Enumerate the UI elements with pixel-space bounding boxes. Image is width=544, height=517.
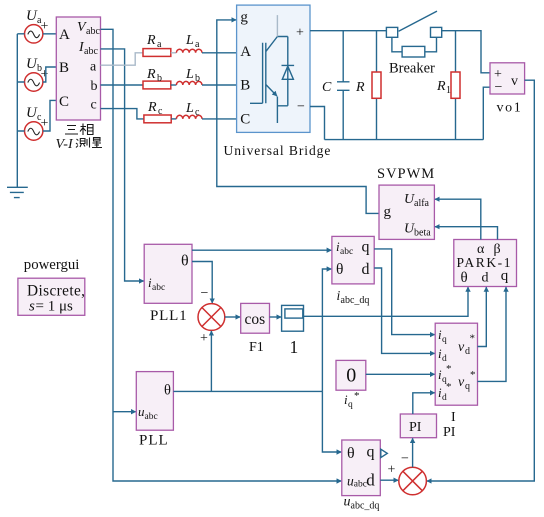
- wire b to Rb: [101, 84, 144, 86]
- wire PARK-1 alpha to Ualfa: [435, 199, 481, 239]
- svg-text:a: a: [90, 60, 97, 75]
- wire uabc_dq d to multiplier2: [380, 479, 398, 481]
- wire PI out to id*: [413, 393, 435, 414]
- wire multiplier1 to cos: [225, 316, 240, 318]
- PLL1 block: [144, 244, 192, 324]
- svg-text:Discrete,: Discrete,: [27, 283, 85, 300]
- wire Ub to block B: [43, 67, 56, 82]
- capacitor C: [322, 31, 350, 140]
- svg-text:*: *: [470, 369, 476, 381]
- svg-text:R: R: [355, 80, 365, 95]
- svg-text:R: R: [147, 100, 157, 115]
- svg-text:v: v: [458, 340, 465, 355]
- breaker: [386, 11, 441, 76]
- svg-text:q: q: [501, 268, 509, 284]
- svg-text:*: *: [446, 363, 452, 375]
- inductor Lb: [176, 67, 202, 85]
- wire rail to vo1 minus: [483, 87, 490, 139]
- svg-text:*: *: [446, 381, 452, 393]
- svg-text:q: q: [442, 335, 447, 345]
- svg-text:*: *: [470, 333, 476, 345]
- svg-text:c: c: [195, 107, 200, 118]
- PLL block: [136, 372, 173, 449]
- svg-text:−: −: [401, 452, 409, 467]
- svg-text:C: C: [240, 111, 250, 127]
- svg-text:q: q: [362, 239, 370, 256]
- cos block F1: [241, 303, 270, 355]
- current controller block I: [435, 323, 477, 425]
- svg-text:d: d: [442, 393, 447, 403]
- svg-text:g: g: [240, 10, 248, 26]
- wire Lb to bridge B: [202, 84, 237, 86]
- voltage measurement vo1: [490, 63, 525, 116]
- svg-text:c: c: [158, 106, 163, 117]
- AC source Uc: [25, 105, 49, 140]
- svg-text:R: R: [146, 33, 156, 48]
- SVPWM block: [377, 166, 435, 239]
- svg-text:+: +: [41, 116, 49, 131]
- ground: [7, 187, 28, 197]
- wire 0 to iq*: [366, 373, 435, 375]
- svg-text:θ: θ: [461, 270, 468, 286]
- svg-text:abc_dq: abc_dq: [351, 501, 380, 512]
- svg-text:L: L: [185, 33, 194, 48]
- svg-text:powergui: powergui: [24, 257, 80, 273]
- wire Rb-Lb: [171, 84, 177, 86]
- PI block: [400, 414, 455, 440]
- wire a (gray) to Ra: [101, 53, 144, 65]
- diode D1 icon: [282, 37, 295, 106]
- wire Ua to block A: [43, 33, 56, 35]
- svg-text:+: +: [41, 67, 49, 82]
- svg-text:+: +: [388, 463, 396, 478]
- inductor Lc: [176, 101, 202, 119]
- resistor Rc: [144, 100, 171, 123]
- wire Iabc to PLL1: [101, 49, 144, 281]
- svg-text:abc: abc: [340, 247, 353, 257]
- wire Rc-Lc: [171, 118, 176, 120]
- svg-text:+: +: [41, 19, 49, 34]
- svg-text:1: 1: [446, 85, 451, 96]
- iabc_dq transform block: [332, 236, 374, 306]
- svg-text:−: −: [201, 286, 209, 301]
- svg-text:beta: beta: [414, 228, 431, 239]
- svg-text:s: s: [29, 299, 35, 315]
- svg-text:B: B: [240, 77, 250, 93]
- svg-text:d: d: [482, 271, 489, 286]
- svg-text:d: d: [366, 471, 375, 490]
- svg-text:b: b: [91, 79, 98, 94]
- svg-text:L: L: [185, 101, 194, 116]
- svg-text:SVPWM: SVPWM: [377, 166, 435, 182]
- svg-text:B: B: [59, 60, 69, 76]
- resistor R: [355, 31, 381, 140]
- wire PLL theta up to iabc_dq theta: [322, 269, 331, 391]
- wire c to Rc: [101, 109, 144, 119]
- svg-text:A: A: [240, 44, 251, 60]
- wire g control (from SVPWM to bridge g): [217, 20, 379, 214]
- wire left bus: [17, 34, 24, 187]
- PARK-1 block: [454, 240, 517, 287]
- wire iabc_dq q out: [374, 249, 434, 335]
- svg-text:−: −: [297, 100, 305, 115]
- wire vq* to PARK-1 q: [478, 287, 507, 381]
- svg-text:d: d: [362, 261, 370, 278]
- svg-text:*: *: [354, 390, 360, 402]
- svg-text:c: c: [91, 98, 97, 113]
- svg-text:a: a: [195, 39, 200, 50]
- wire scope1 to PARK-1 theta: [304, 287, 469, 316]
- svg-text:q: q: [465, 381, 470, 392]
- svg-text:PLL: PLL: [139, 433, 169, 449]
- scope 1: [282, 305, 304, 357]
- svg-text:R: R: [146, 67, 156, 82]
- svg-text:+: +: [200, 331, 208, 346]
- svg-text:abc: abc: [145, 412, 158, 422]
- svg-text:alfa: alfa: [414, 198, 430, 209]
- svg-text:v: v: [511, 74, 518, 89]
- svg-text:abc_dq: abc_dq: [341, 295, 370, 306]
- svg-text:PI: PI: [443, 425, 456, 440]
- wire PLL theta net: [173, 390, 322, 392]
- wire Vabc down-left vertical: [101, 29, 342, 481]
- svg-text:A: A: [59, 27, 70, 43]
- svg-text:q: q: [367, 444, 375, 461]
- svg-text:a: a: [157, 39, 162, 50]
- inductor La: [176, 33, 202, 53]
- svg-text:1: 1: [290, 337, 299, 357]
- wire cos to scope1: [270, 316, 282, 318]
- wire La to bridge A: [202, 52, 237, 54]
- wire iabc_dq d out: [374, 268, 434, 353]
- multiplier product2: [399, 467, 427, 495]
- svg-text:+: +: [296, 26, 304, 41]
- AC source Ub: [25, 56, 49, 91]
- wire bridge minus to rail: [310, 107, 325, 140]
- resistor R1: [436, 31, 460, 140]
- svg-text:g: g: [384, 204, 392, 220]
- wire PLL theta up to multiplier1: [210, 331, 212, 391]
- svg-text:abc: abc: [86, 26, 100, 37]
- unconnected q port marker: [381, 449, 388, 457]
- svg-text:θ: θ: [347, 445, 355, 462]
- svg-text:V-I: V-I: [56, 137, 74, 152]
- wire Lc to bridge C: [202, 118, 237, 120]
- wire PLL1 theta to multiplier: [192, 262, 212, 304]
- svg-text:q: q: [348, 400, 353, 410]
- wire bottom dc rail: [325, 139, 484, 141]
- svg-text:PLL1: PLL1: [150, 308, 187, 324]
- svg-text:d: d: [465, 346, 470, 357]
- wire vd* to PARK-1 d: [478, 287, 487, 346]
- wire vo1 output feedback: [427, 80, 534, 481]
- resistor Rb: [143, 67, 171, 89]
- wire PLL theta down to uabc_dq theta: [322, 391, 341, 452]
- svg-text:u: u: [344, 495, 351, 510]
- svg-text:v: v: [458, 375, 465, 390]
- wire Uc to block C: [43, 100, 56, 131]
- svg-text:= 1 μs: = 1 μs: [36, 299, 74, 315]
- svg-text:b: b: [157, 73, 162, 84]
- svg-text:−: −: [495, 80, 503, 95]
- svg-text:Universal Bridge: Universal Bridge: [224, 143, 332, 158]
- wire multiplier2 to PI: [412, 438, 414, 467]
- svg-text:L: L: [185, 67, 194, 82]
- svg-text:C: C: [322, 80, 332, 95]
- svg-text:θ: θ: [164, 383, 171, 399]
- svg-text:abc: abc: [152, 283, 165, 293]
- svg-text:F1: F1: [249, 340, 264, 355]
- svg-text:abc: abc: [354, 480, 367, 490]
- AC source Ua: [25, 8, 49, 43]
- wire Vabc branch to PLL: [113, 411, 136, 413]
- resistor Ra: [143, 33, 171, 56]
- svg-text:Breaker: Breaker: [389, 61, 435, 77]
- svg-text:cos: cos: [245, 311, 266, 328]
- wire Ra-La (gray): [171, 52, 177, 54]
- svg-text:b: b: [195, 73, 200, 84]
- wire PARK-1 beta to Ubeta: [435, 227, 498, 240]
- svg-text:C: C: [59, 94, 69, 110]
- IGBT U1 icon: [250, 15, 288, 123]
- V-I measurement block: [56, 17, 103, 152]
- wire rail after breaker to vo1 +: [442, 31, 490, 73]
- svg-text:I: I: [451, 410, 456, 425]
- wire + rail: [310, 30, 386, 32]
- svg-text:R: R: [436, 79, 446, 94]
- uabc_dq transform block: [342, 440, 381, 512]
- svg-text:0: 0: [346, 364, 356, 386]
- multiplier product1: [198, 304, 225, 331]
- svg-text:abc: abc: [84, 46, 98, 57]
- svg-text:vo1: vo1: [497, 101, 523, 116]
- powergui block: [18, 257, 85, 315]
- wire PLL1 out1 to iabc_dq: [192, 249, 331, 251]
- Universal Bridge block: [237, 5, 310, 132]
- svg-text:PI: PI: [409, 420, 422, 435]
- constant 0 block: [336, 360, 366, 410]
- svg-text:θ: θ: [336, 261, 343, 278]
- svg-text:θ: θ: [181, 253, 189, 270]
